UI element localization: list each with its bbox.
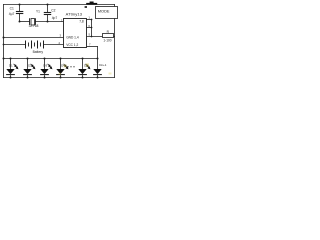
wire battery left bbox=[4, 44, 26, 46]
wire C1 stem top bbox=[19, 5, 21, 12]
wire pin2 right bbox=[87, 27, 92, 29]
svg-text:D1: D1 bbox=[9, 63, 13, 67]
svg-text:VCC 1,2: VCC 1,2 bbox=[66, 43, 78, 47]
battery BT1 bbox=[26, 41, 44, 54]
diode Dn+1 bbox=[93, 63, 107, 77]
wire Dn+1 vertical bbox=[97, 47, 99, 70]
IC U1 box bbox=[64, 12, 87, 48]
svg-text:C2: C2 bbox=[51, 9, 55, 13]
colour artifacts (yellow smudges) bbox=[59, 63, 112, 75]
svg-text:GND 1,4: GND 1,4 bbox=[66, 35, 79, 39]
wire pin4 right bbox=[87, 46, 98, 48]
svg-text:7,8: 7,8 bbox=[79, 19, 84, 23]
svg-text:4µ7: 4µ7 bbox=[9, 12, 15, 16]
svg-text:Y1: Y1 bbox=[36, 10, 40, 14]
LED D3 bbox=[40, 59, 52, 78]
crystal Y1 bbox=[29, 10, 41, 29]
svg-text:Battery: Battery bbox=[33, 50, 44, 54]
capacitor C2 bbox=[44, 9, 58, 20]
wire xtal net right bbox=[36, 21, 64, 23]
wire left rail bbox=[3, 5, 5, 78]
svg-text:Dn+1: Dn+1 bbox=[99, 63, 107, 67]
LED Dn bbox=[78, 59, 90, 78]
junction dots bbox=[3, 4, 99, 79]
wire LED anode bus bbox=[4, 58, 98, 60]
svg-text:C1: C1 bbox=[10, 7, 14, 11]
MODE label box bbox=[96, 7, 118, 19]
wire C2 stem top bbox=[47, 5, 49, 13]
wire right bus vertical bbox=[91, 20, 93, 37]
wire pin1 right bbox=[87, 19, 92, 21]
wire battery right bbox=[44, 44, 64, 46]
wire C2 stem bottom bbox=[47, 15, 49, 22]
LED D2 bbox=[23, 59, 35, 78]
wire right rail bbox=[114, 5, 116, 78]
svg-text:1-100: 1-100 bbox=[103, 39, 111, 43]
wire C1 stem bottom bbox=[19, 14, 21, 22]
wire resistor right bbox=[114, 36, 115, 38]
LED D1 bbox=[6, 59, 18, 78]
svg-text:ATtiny13: ATtiny13 bbox=[66, 12, 83, 17]
pushbutton S1 (MODE button) bbox=[85, 2, 100, 8]
wire top rail bbox=[4, 4, 115, 6]
wire xtal net left bbox=[20, 21, 30, 23]
svg-text:32.768: 32.768 bbox=[29, 24, 39, 28]
capacitor C1 bbox=[9, 7, 23, 17]
ellipsis (more LEDs) bbox=[67, 66, 74, 67]
wire resistor left bbox=[87, 36, 103, 38]
wire pin3 net bbox=[4, 37, 64, 39]
svg-text:4p7: 4p7 bbox=[52, 16, 58, 20]
svg-text:D3: D3 bbox=[43, 63, 47, 67]
svg-text:MODE: MODE bbox=[98, 9, 110, 14]
wire bottom rail bbox=[4, 77, 115, 79]
LED D4 bbox=[56, 59, 68, 78]
resistor R bbox=[103, 30, 114, 42]
